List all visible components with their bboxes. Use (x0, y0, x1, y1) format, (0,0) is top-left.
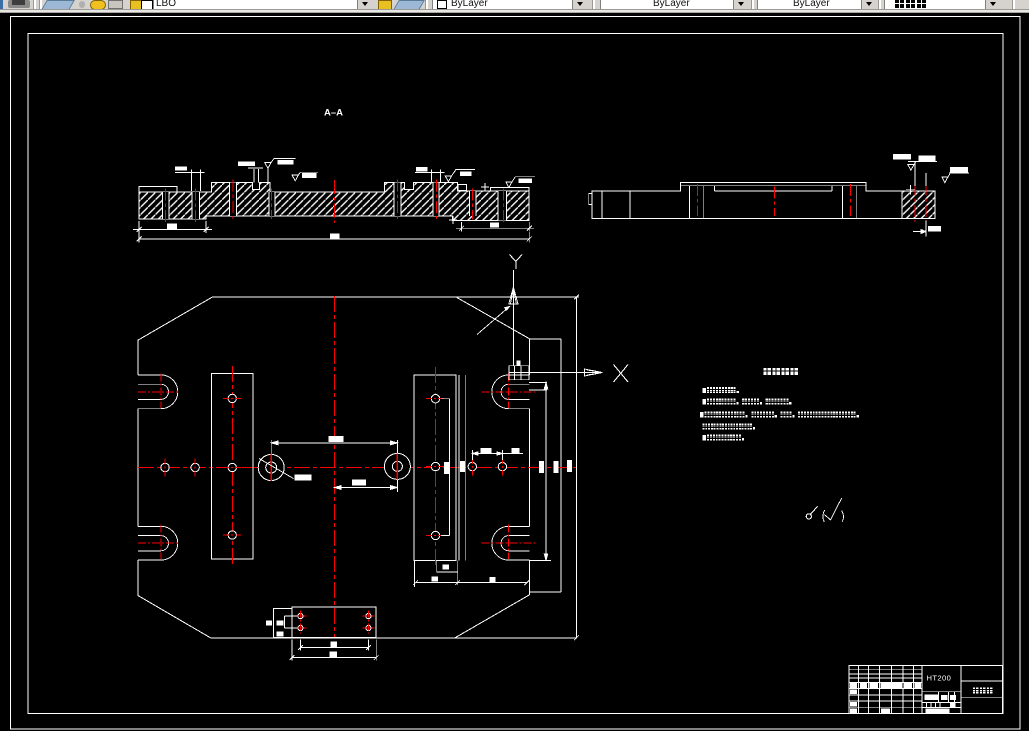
dimension center-to-circle (334, 480, 397, 493)
svg-text:HT200: HT200 (927, 674, 952, 683)
dimension circle-to-circle (271, 436, 397, 454)
section hole channel 7 (469, 189, 476, 220)
centerline hole right 1 (468, 458, 476, 476)
bottom dimension inner (298, 640, 371, 651)
bottom block large (292, 607, 376, 637)
thread callout 2-M8 boss2 (415, 167, 445, 182)
section overall width dimension (137, 232, 532, 243)
key square on section top (458, 185, 467, 191)
section left width dimension (133, 221, 212, 233)
Y axis line and arrow (509, 270, 518, 366)
left strip hole 1 (223, 394, 242, 402)
tooling cross 2 (449, 216, 457, 224)
svg-text:A–A: A–A (324, 108, 343, 119)
section hole channel 8 (498, 189, 506, 224)
bottom block hole centerlines (300, 611, 368, 634)
side view red centerlines (697, 184, 926, 223)
left strip hole 3 (223, 531, 242, 539)
side view bottom callout 2-M8 (913, 221, 941, 237)
title block material HT200 (927, 674, 952, 683)
left strip centerline (231, 366, 233, 567)
plot style combo (884, 0, 986, 10)
hole callout 4-phi9 (175, 166, 205, 191)
section hole channel 4 (269, 189, 275, 220)
Y axis label (510, 255, 523, 270)
color combo (432, 0, 573, 10)
bottom block hole 3 (362, 614, 374, 619)
plan view outline (138, 297, 579, 638)
title block left grid (849, 666, 922, 714)
bottom block small (273, 608, 292, 637)
side view hatched right end (902, 191, 935, 219)
strip-to-edge dimension (413, 576, 529, 585)
left strip hole 2 (223, 463, 242, 471)
side view internal verticals (602, 186, 866, 219)
U-slot bottom-left (138, 526, 178, 560)
roughness flag Ra6.3 mid (292, 172, 318, 181)
lineweight combo (757, 0, 862, 10)
circle leader callout (259, 459, 312, 481)
bottom block hole 1 (294, 614, 306, 619)
U-slot bottom-right (492, 526, 530, 560)
centerline hole left 1 (161, 459, 169, 477)
side view body (592, 182, 935, 218)
section hole channel 5 (394, 180, 401, 220)
roughness check small (806, 506, 817, 519)
toolbar strip (cropped AutoCAD toolbars) (0, 0, 1029, 9)
section hole channel 2 (192, 189, 199, 223)
section center red line (334, 180, 336, 223)
notch callout boss1 (238, 162, 263, 183)
linetype combo (600, 0, 734, 10)
bottom dimension outer (290, 640, 379, 661)
locating circle left (258, 454, 284, 481)
roughness flag Ra6.3 right cap (506, 177, 535, 188)
centerline hole right 2 (498, 458, 506, 476)
side view tooling cross (906, 185, 915, 194)
section A-A right cap strip (490, 188, 529, 192)
dimension right hole pair (472, 448, 523, 460)
section right width dimension (456, 222, 534, 232)
plan vertical centerline (333, 296, 335, 638)
right strip hole 1 (426, 395, 445, 403)
right vertical dimension slots (529, 382, 559, 560)
roughness flag Ra1.6 boss1 (265, 159, 296, 183)
plan horizontal centerline (138, 467, 578, 469)
side view left tab (589, 194, 592, 205)
section hole channel 6 (433, 180, 439, 220)
technical requirements text (700, 387, 859, 440)
side view top annotations (893, 154, 969, 186)
section hole channel 1 (163, 189, 169, 223)
title block text blobs (850, 683, 921, 713)
roughness check parenthesized (823, 498, 844, 522)
bottom block hole 2 (294, 625, 306, 630)
U-slot top-right (492, 375, 530, 409)
X axis line and arrow (529, 369, 603, 376)
right strip centerline (435, 367, 437, 566)
technical requirements title (763, 368, 798, 375)
section A-A left cap plate (139, 187, 177, 192)
right strip hole 3 (426, 531, 445, 539)
title block middle blobs (925, 695, 957, 714)
right strip plate (414, 375, 456, 561)
right strip hole 2 (426, 462, 445, 470)
strip lower extension lines (415, 560, 458, 587)
right overall height dimension (567, 295, 579, 641)
title block right rows (961, 681, 1003, 698)
bottom block left leaders (266, 616, 298, 636)
title block part name (973, 687, 993, 693)
left strip plate (212, 374, 254, 559)
layer combo (153, 0, 358, 10)
bottom block hole 4 (362, 625, 374, 630)
section hole channel 3 (230, 180, 237, 220)
roughness flag Ra1.6 boss2 (445, 169, 475, 181)
X axis label (614, 365, 629, 383)
right strip inner dimension (441, 399, 449, 536)
section A-A hatched body (139, 183, 529, 221)
right strip height dimension lines (459, 375, 466, 561)
U-slot top-left (138, 375, 178, 409)
locating circle right (384, 453, 410, 479)
section label A-A (324, 108, 343, 119)
title block middle subgrid (922, 692, 961, 708)
title block outer frame (849, 666, 1003, 714)
centerline hole left 2 (191, 459, 199, 477)
origin symbol (509, 361, 529, 380)
tooling cross 1 (481, 183, 489, 191)
leader arrow near Y axis (477, 307, 510, 335)
